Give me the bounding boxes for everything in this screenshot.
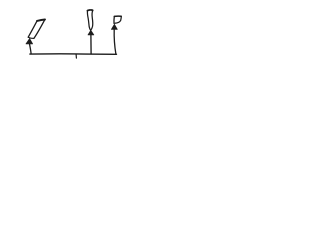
junction tick T1 [75, 54, 77, 58]
arrow A2 head [88, 30, 94, 35]
flag F1 top edge [37, 20, 45, 21]
flag F2 top edge [87, 9, 92, 12]
flag F1 bottom edge [28, 37, 34, 38]
flag F3 right edge and bottom curve [115, 16, 122, 23]
arrow A3 head [111, 24, 117, 29]
flag F1 right edge [34, 20, 45, 39]
wire (bottom bus) [30, 53, 117, 56]
flag F1 (left parallelogram pennant) left edge [28, 21, 37, 37]
flag F3 (right flag) pole [113, 17, 115, 24]
arrow A1 shaft [30, 44, 32, 54]
flag F2 (middle ribbon) left side [87, 10, 90, 30]
arrow A1 head [26, 38, 33, 44]
arrow A2 shaft [90, 35, 92, 54]
flag F2 right side [91, 10, 93, 30]
arrow A3 shaft [114, 29, 116, 54]
flag F3 top edge [114, 15, 121, 17]
